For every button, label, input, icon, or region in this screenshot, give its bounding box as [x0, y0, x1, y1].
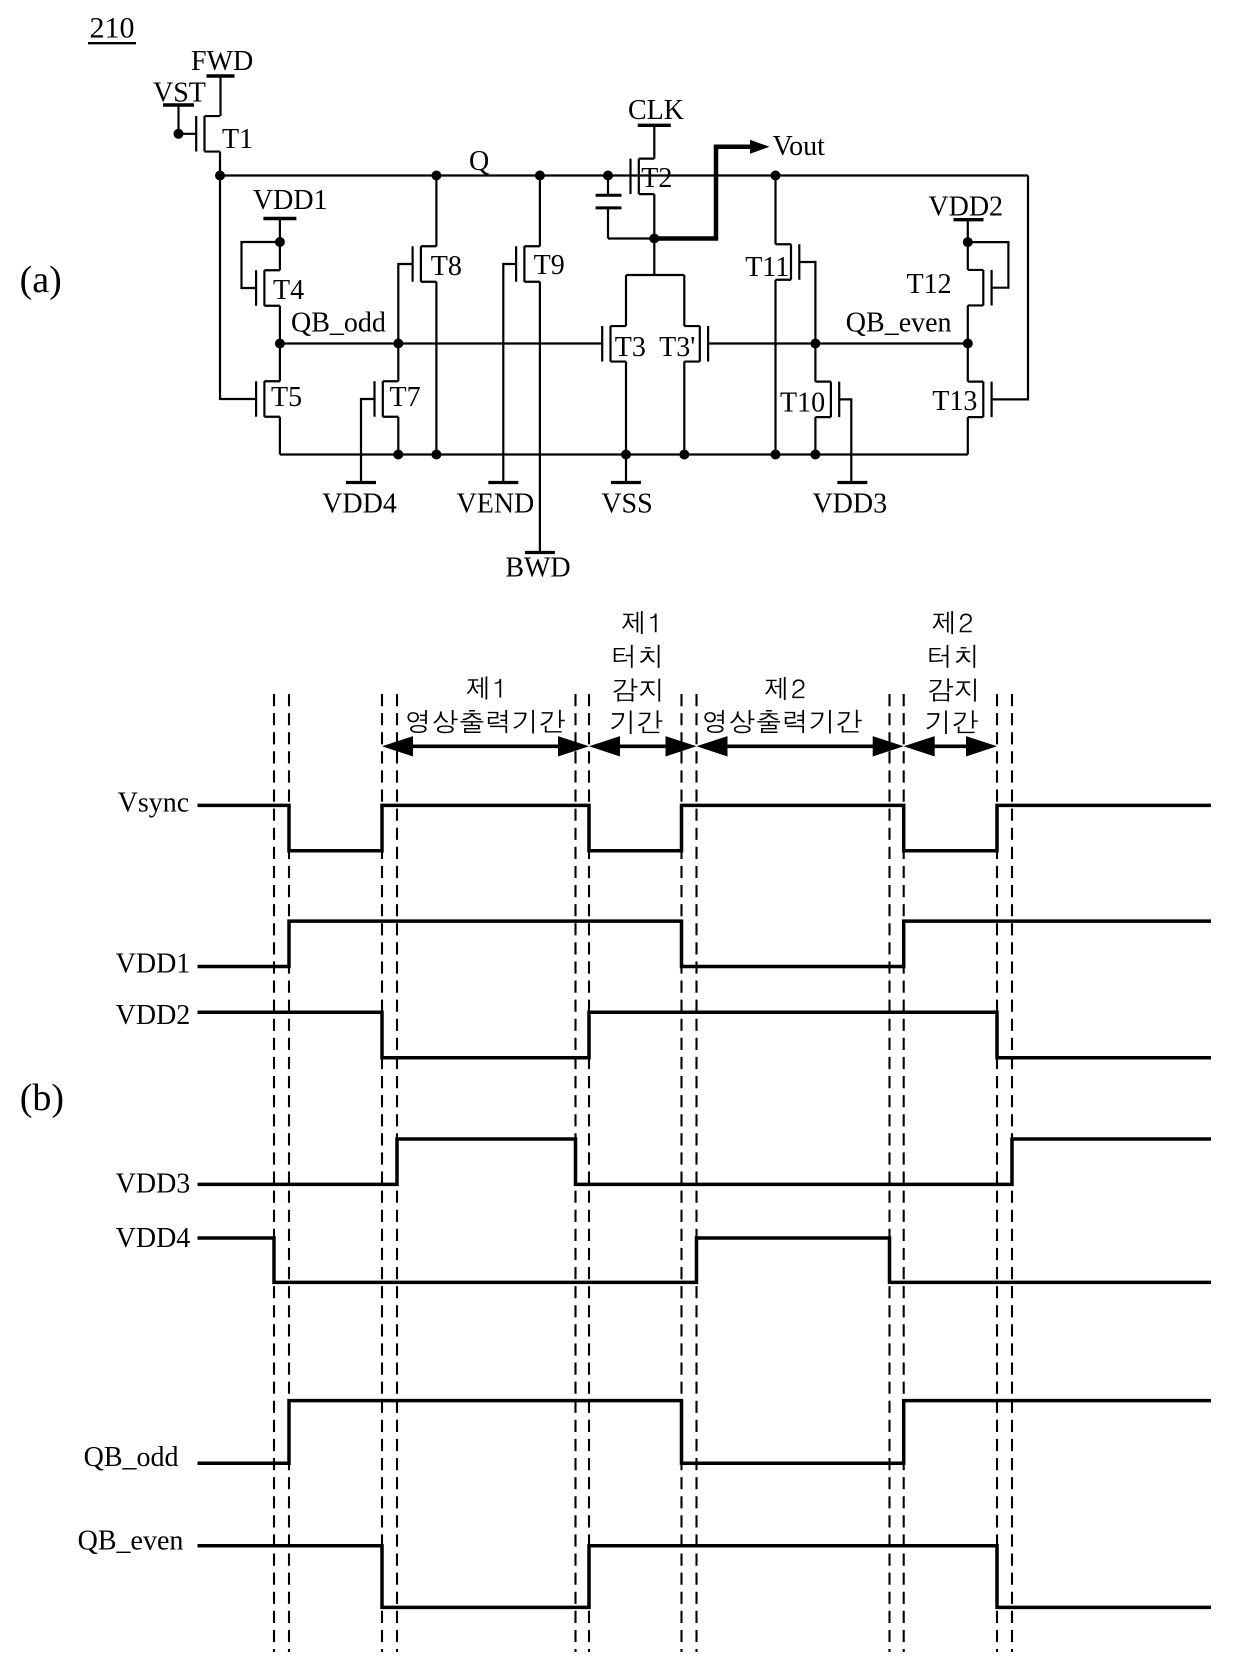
- svg-text:VDD4: VDD4: [322, 489, 397, 520]
- power terminal BWD: [505, 552, 570, 583]
- svg-text:T10: T10: [780, 388, 825, 419]
- wire T12 source to QB_even: [967, 305, 969, 343]
- svg-text:T5: T5: [271, 382, 302, 413]
- svg-text:T13: T13: [932, 386, 977, 417]
- junction dot rail-T10: [810, 450, 820, 460]
- wire T4 gate loop: [242, 242, 280, 288]
- transistor T11: [745, 244, 799, 283]
- wire T3-prime source to rail: [683, 362, 685, 455]
- svg-text:Vout: Vout: [773, 131, 826, 162]
- input terminal VST: [153, 78, 206, 134]
- transistor T1: [196, 116, 253, 155]
- wire capacitor to node A: [608, 237, 654, 239]
- junction dot QB_even-T11/T10: [810, 339, 820, 349]
- svg-text:Q: Q: [469, 146, 489, 177]
- transistor T5: [256, 381, 302, 417]
- wire net Q horizontal: [220, 174, 1028, 176]
- transistor T3-prime: [659, 326, 708, 363]
- wire bottom rail: [280, 453, 968, 455]
- output arrow Vout: [654, 131, 825, 239]
- wire Q right edge down to T13 gate: [992, 176, 1028, 400]
- wire T8 source to rail: [435, 282, 437, 455]
- svg-text:T12: T12: [907, 269, 952, 300]
- wire VDD1 dot to T4 drain: [279, 242, 281, 270]
- capacitor C1: [596, 176, 622, 239]
- wire VST to T1 gate: [179, 133, 197, 135]
- svg-text:T1: T1: [222, 124, 253, 155]
- svg-text:VDD1: VDD1: [116, 949, 191, 980]
- caption 2nd image output period: [765, 677, 804, 700]
- svg-text:T3: T3: [615, 332, 646, 363]
- svg-text:QB_even: QB_even: [78, 1526, 184, 1557]
- transistor T7: [375, 381, 421, 417]
- transistor T2: [631, 159, 673, 195]
- signal QB_even: [78, 1526, 1211, 1608]
- wire T10 source to rail: [814, 417, 816, 454]
- signal VDD3: [116, 1139, 1211, 1200]
- svg-text:VDD3: VDD3: [812, 489, 887, 520]
- signal Vsync: [118, 788, 1211, 851]
- junction dot VDD1-T4: [275, 237, 285, 247]
- svg-text:(b): (b): [20, 1077, 64, 1119]
- svg-text:FWD: FWD: [191, 46, 253, 77]
- wire T9 gate down to VEND: [503, 264, 516, 483]
- wire T8 drain up to Q: [435, 176, 437, 247]
- wire T11 source to rail: [774, 280, 776, 455]
- signal VDD2: [116, 1000, 1211, 1058]
- svg-text:T9: T9: [534, 250, 565, 281]
- svg-text:QB_odd: QB_odd: [84, 1442, 179, 1473]
- svg-text:VDD2: VDD2: [116, 1000, 191, 1031]
- transistor T4 diode-connected: [256, 270, 304, 306]
- wire net QB_odd horizontal: [280, 342, 602, 344]
- wire T11 gate down to QB_even: [799, 262, 815, 344]
- junction dot rail-T3p: [679, 450, 689, 460]
- wire T8 gate down to QB_odd: [398, 264, 412, 344]
- power terminal VDD2: [928, 192, 1003, 243]
- power terminal FWD: [191, 46, 253, 116]
- junction dot VDD2-T12: [963, 237, 973, 247]
- wire T1 source to node Q: [219, 152, 221, 176]
- period arrow 1st touch sensing: [618, 744, 668, 748]
- junction dot Q-T9: [535, 171, 545, 181]
- signal VDD4: [116, 1223, 1211, 1283]
- wire T10 gate down to VDD3: [839, 399, 851, 482]
- svg-text:T11: T11: [745, 252, 789, 283]
- wire T3 source to rail: [625, 362, 627, 455]
- svg-text:BWD: BWD: [505, 552, 570, 583]
- wire T9 source down to BWD: [539, 282, 541, 553]
- junction dot Q-capacitor: [603, 171, 613, 181]
- wire T12 gate loop: [968, 242, 1009, 288]
- svg-text:VDD3: VDD3: [116, 1169, 191, 1200]
- transistor T13: [932, 382, 991, 418]
- junction dot rail-T11: [771, 450, 781, 460]
- junction dot QB_odd-T4/T5: [275, 339, 285, 349]
- power terminal VEND: [457, 483, 535, 520]
- svg-text:(a): (a): [20, 259, 62, 301]
- svg-text:VSS: VSS: [601, 489, 652, 520]
- wire T13 drain to QB_even: [967, 344, 969, 382]
- transistor T10: [780, 382, 839, 419]
- svg-text:210: 210: [90, 11, 135, 44]
- junction dot QB_odd-T8 gate: [393, 339, 403, 349]
- transistor T12 diode-connected: [907, 269, 992, 305]
- svg-text:VDD1: VDD1: [253, 185, 328, 216]
- svg-text:T8: T8: [431, 251, 462, 282]
- svg-text:QB_even: QB_even: [846, 308, 952, 339]
- junction dot Q-T8: [431, 171, 441, 181]
- transistor T3: [602, 326, 646, 363]
- transistor T8: [413, 246, 462, 282]
- junction dot Q-T11: [771, 171, 781, 181]
- wire T9 drain up to Q: [539, 176, 541, 247]
- wire T13 source to rail end: [967, 417, 969, 454]
- wire T5 source to bottom rail: [279, 417, 281, 455]
- power terminal VDD1: [253, 185, 328, 242]
- wire T10 drain to QB_even: [814, 344, 816, 382]
- svg-text:VEND: VEND: [457, 489, 535, 520]
- caption 1st touch sensing period: [622, 611, 657, 634]
- wire net QB_even horizontal: [708, 342, 968, 344]
- signal VDD1: [116, 921, 1211, 979]
- signal QB_odd: [84, 1401, 1211, 1474]
- svg-text:VDD4: VDD4: [116, 1223, 191, 1254]
- period arrow 2nd image output: [726, 744, 875, 748]
- wire T4 source to QB_odd: [279, 306, 281, 344]
- wire QB_odd to T5 drain: [279, 344, 281, 382]
- wire node A down to T3/T3 pair: [626, 239, 684, 327]
- period arrow 2nd touch sensing: [933, 744, 968, 748]
- wire T7 source to rail: [397, 417, 399, 455]
- svg-text:CLK: CLK: [628, 95, 684, 126]
- wire Q down-left branch to T5 gate: [220, 176, 256, 400]
- junction dot Q-T1: [215, 171, 225, 181]
- junction dot QB_even-T12/T13: [963, 339, 973, 349]
- svg-text:T2: T2: [641, 163, 672, 194]
- wire T7 gate to VDD4: [361, 399, 375, 483]
- wire T7 drain to QB_odd: [397, 344, 399, 382]
- svg-text:QB_odd: QB_odd: [291, 308, 386, 339]
- svg-text:Vsync: Vsync: [118, 788, 190, 819]
- svg-text:T3': T3': [659, 332, 695, 363]
- wire T2 source down to node A: [653, 194, 655, 238]
- svg-text:T7: T7: [390, 382, 421, 413]
- power terminal VDD4: [322, 483, 397, 520]
- junction dot node A: [649, 234, 659, 244]
- power terminal VDD3: [812, 483, 887, 520]
- wire T11 drain up to Q: [774, 176, 776, 245]
- power terminal VSS: [601, 455, 652, 520]
- power terminal CLK: [628, 95, 684, 159]
- junction dot rail-T7: [393, 450, 403, 460]
- transistor T9: [516, 246, 565, 282]
- svg-text:VDD2: VDD2: [928, 192, 1003, 223]
- svg-text:T4: T4: [273, 275, 304, 306]
- junction dot VST gate: [174, 129, 184, 139]
- period arrow 1st image output: [411, 744, 560, 748]
- caption 2nd touch sensing period: [932, 611, 971, 634]
- junction dot rail-T8: [431, 450, 441, 460]
- dashed timing guide lines: [274, 694, 1012, 1652]
- wire VDD2 dot to T12 drain: [967, 242, 969, 270]
- caption 1st image output period: [467, 677, 502, 700]
- junction dot rail-T3: [621, 450, 631, 460]
